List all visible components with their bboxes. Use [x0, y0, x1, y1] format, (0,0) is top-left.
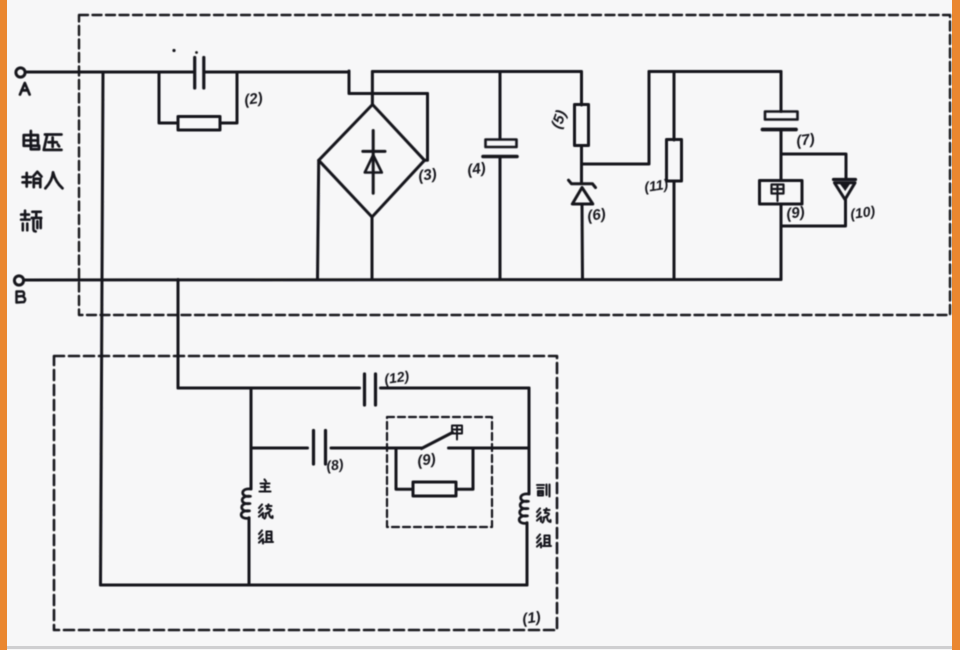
wire: cap(7) to relay node: [780, 131, 783, 181]
capacitor C4 bottom plate: [483, 155, 517, 159]
wire: cap(12) to right corner: [381, 387, 530, 390]
wire: horizontal to cap(12): [178, 387, 360, 390]
primary winding coil: [241, 489, 251, 519]
label A: [20, 83, 30, 95]
relay jia glyph: [772, 185, 784, 202]
svg-text:(7): (7): [795, 131, 816, 150]
wire: mid vertical x251 upper: [250, 388, 253, 489]
char shu: [23, 172, 42, 187]
wire: parallel loop around R2: [159, 72, 237, 123]
wire: right vertical of lower loop: [528, 388, 531, 494]
inner dashed box around switch: [387, 417, 492, 527]
wire: B-rail drop at x178 to lower network: [177, 280, 180, 389]
svg-text:(11): (11): [643, 176, 669, 195]
char fu: [537, 485, 550, 497]
svg-text:(9): (9): [785, 204, 806, 223]
char rao: [259, 505, 273, 519]
wire: cap(4) bottom lead: [499, 158, 502, 280]
capacitor C2 plates: [195, 58, 204, 89]
secondary winding coil: [519, 494, 529, 524]
bridge rectifier (3) diamond: [319, 105, 425, 218]
dash-dot enclosure box (main circuit): [79, 15, 950, 315]
capacitor C4 top plate: [486, 140, 517, 148]
switch jia blade: [422, 433, 453, 449]
bridge inner diode cathode bar: [363, 150, 385, 153]
capacitor C7 top plate: [765, 112, 798, 120]
resistor R2 body: [178, 117, 220, 131]
wire: bypass loop right leg: [456, 448, 473, 489]
svg-text:(1): (1): [521, 609, 542, 628]
terminal A: [16, 68, 25, 77]
svg-text:(2): (2): [243, 90, 264, 109]
wire: top rail from bridge to resistor(5): [372, 70, 581, 73]
text zhu rao zu column (primary winding): [259, 480, 273, 544]
wire: bridge right vertex riser: [425, 94, 428, 161]
right orange page border: [952, 0, 960, 650]
wire: secondary coil to bottom rail: [526, 523, 529, 585]
wire: resistor(11) bottom lead: [673, 181, 676, 280]
char ru: [45, 172, 62, 188]
dashed enclosure box (1) bottom: [54, 356, 557, 630]
wire: riser joining (5)/(6) node to right rail: [582, 72, 650, 165]
zener diode (6) triangle: [572, 188, 593, 205]
capacitor C8 plates: [314, 431, 326, 465]
stray dot 1: [172, 49, 175, 52]
wire: bypass loop left leg: [396, 448, 413, 489]
wire: bottom rail: [101, 584, 528, 587]
wire: switch right contact to loop edge: [449, 447, 530, 450]
left orange page border: [0, 0, 7, 650]
char ya: [44, 135, 62, 150]
capacitor C12 plates: [365, 374, 376, 405]
wire: cap(2) right plate to step-down: [205, 71, 349, 74]
wire: cap(8) to switch: [331, 447, 422, 450]
wire: bridge bottom vertex to B rail: [371, 217, 374, 280]
wire: left tall vertical from A rail down to bottom rail: [101, 72, 104, 585]
diode (10) inner fill: [840, 184, 850, 191]
diode (10) cathode bar: [834, 178, 856, 181]
char zu: [259, 531, 273, 544]
label B: [17, 292, 26, 303]
char duan: [21, 211, 41, 232]
svg-text:(3): (3): [417, 166, 438, 185]
switch jia glyph: [452, 426, 462, 440]
wire: resistor(11) top lead: [673, 72, 676, 141]
wire: top rail right section: [649, 70, 781, 73]
char rao2: [537, 509, 551, 523]
svg-text:(8): (8): [325, 456, 345, 474]
wire: primary coil to bottom rail: [248, 518, 251, 585]
text fu rao zu column (secondary winding): [537, 485, 551, 548]
wire: A terminal to cap(2) left plate: [25, 71, 193, 74]
wire: resistor(5) top lead: [580, 72, 583, 106]
svg-text:(9): (9): [416, 451, 437, 470]
wire: B terminal rail: [24, 278, 781, 282]
bridge inner diode triangle: [365, 155, 382, 173]
diode (10) triangle: [835, 183, 856, 200]
resistor R5 body: [575, 105, 589, 146]
wire: diode(10) bottom loop: [781, 199, 846, 226]
resistor R11 body: [667, 140, 682, 182]
wire: cap(7) top lead: [780, 72, 783, 112]
wire: bridge left vertex to B rail: [318, 160, 319, 279]
stray dot 2: [195, 51, 198, 54]
resistor R9 body: [413, 482, 456, 496]
svg-text:(6): (6): [586, 206, 607, 225]
wire: cap(4) top lead: [499, 72, 502, 140]
relay (9) box: [760, 181, 803, 205]
text dianya shuru duan column: [21, 131, 62, 231]
bottom gray page rule: [7, 646, 952, 649]
wire: x251 to cap(8): [251, 447, 308, 450]
wire: branch to diode(10) top: [781, 154, 846, 178]
zener diode (6) cathode bar: [569, 180, 596, 187]
char zu2: [537, 535, 551, 548]
capacitor C7 bottom plate: [763, 128, 797, 132]
wire: resistor(5) to zener(6): [580, 146, 583, 184]
wire: relay bottom lead to B rail: [780, 204, 783, 280]
char zhu: [260, 480, 271, 492]
terminal B: [14, 276, 23, 285]
char dian: [24, 131, 39, 149]
wire: zener(6) to B rail: [581, 204, 585, 280]
svg-text:(4): (4): [466, 160, 487, 179]
wire: bridge top vertex riser: [371, 72, 374, 105]
wire: step down into bridge rail: [349, 71, 428, 94]
bridge inner diode wire: [372, 131, 375, 194]
